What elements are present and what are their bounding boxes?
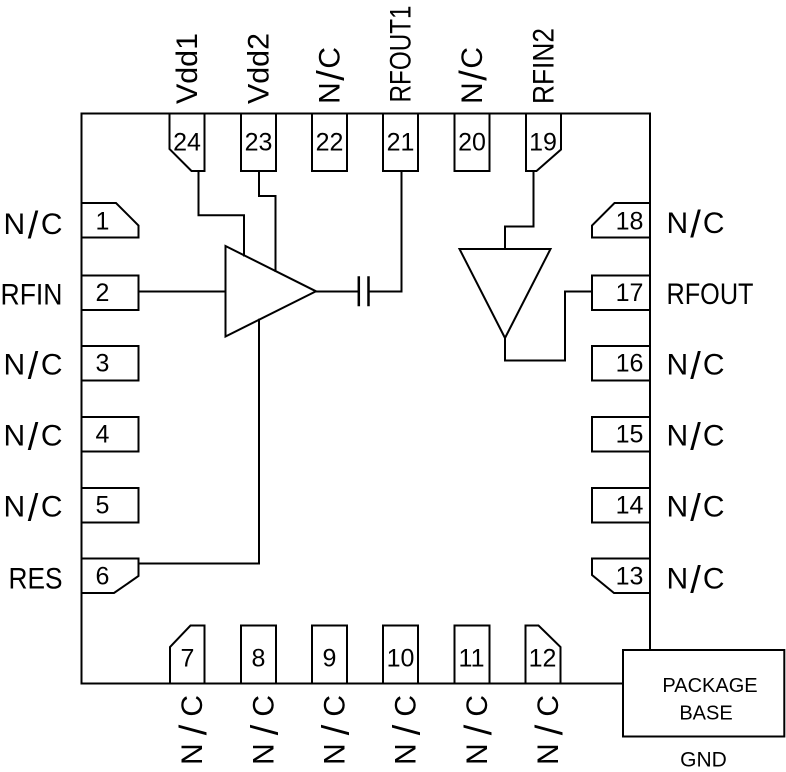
pin 6 pad	[82, 559, 139, 594]
svg-text:4: 4	[96, 421, 110, 449]
pin 22 pad	[312, 114, 347, 172]
op-amp U2	[460, 249, 551, 338]
wire pin 23 Vdd2 to U1 top	[259, 171, 276, 271]
pin 2 pad	[82, 276, 139, 311]
svg-text:N/C: N/C	[316, 695, 358, 765]
pin 18 pad	[592, 203, 650, 238]
wire U1 output to capacitor C1	[316, 291, 358, 293]
capacitor C1	[359, 278, 369, 306]
svg-text:11: 11	[459, 645, 485, 673]
pin 23 pad	[241, 114, 276, 172]
pin 12 pad	[526, 626, 561, 684]
wire pin 2 RFIN to U1 input	[139, 291, 226, 293]
pin 13 pad	[592, 559, 650, 594]
svg-text:RFOUT1: RFOUT1	[385, 6, 418, 103]
svg-text:N/C: N/C	[4, 417, 63, 459]
svg-text:N/C: N/C	[667, 417, 725, 459]
svg-text:BASE: BASE	[679, 703, 732, 725]
svg-text:RFIN2: RFIN2	[528, 28, 561, 104]
pin 4 pad	[82, 417, 139, 452]
pin 20 pad	[455, 114, 490, 172]
svg-text:RFOUT: RFOUT	[667, 278, 754, 311]
wire capacitor C1 to pin 21 RFOUT1	[370, 171, 402, 292]
svg-text:24: 24	[173, 129, 201, 157]
svg-text:6: 6	[96, 563, 110, 591]
svg-text:N/C: N/C	[4, 488, 63, 530]
svg-text:12: 12	[529, 645, 557, 673]
svg-text:8: 8	[252, 645, 266, 673]
svg-text:N/C: N/C	[4, 346, 63, 388]
op-amp U1	[226, 246, 317, 337]
svg-text:N/C: N/C	[458, 695, 500, 765]
pin 11 pad	[455, 626, 490, 684]
svg-text:N/C: N/C	[4, 205, 63, 247]
svg-text:17: 17	[616, 279, 644, 307]
wire pin 6 RES to U1 bottom	[139, 320, 260, 564]
pin 10 pad	[383, 626, 418, 684]
svg-text:21: 21	[387, 129, 415, 157]
wire pin 24 Vdd1 to U1 top	[199, 171, 245, 256]
svg-text:1: 1	[96, 208, 110, 236]
pin 21 pad	[383, 114, 418, 172]
wire U2 output to pin 17 RFOUT	[505, 292, 592, 361]
pin 24 pad	[170, 114, 205, 172]
svg-text:N/C: N/C	[173, 695, 215, 765]
svg-text:16: 16	[616, 350, 644, 378]
pin 16 pad	[592, 346, 650, 381]
svg-text:23: 23	[245, 129, 273, 157]
pin 1 pad	[82, 203, 139, 238]
svg-text:RES: RES	[9, 563, 63, 596]
svg-text:7: 7	[181, 645, 195, 673]
pin 17 pad	[592, 276, 650, 311]
pin 8 pad	[241, 626, 276, 684]
pin 9 pad	[312, 626, 347, 684]
package base paddle	[623, 650, 784, 737]
svg-text:N/C: N/C	[387, 695, 429, 765]
svg-text:N/C: N/C	[667, 488, 725, 530]
svg-text:14: 14	[616, 492, 644, 520]
svg-text:N/C: N/C	[311, 47, 353, 104]
svg-text:GND: GND	[680, 749, 727, 772]
svg-text:N/C: N/C	[453, 47, 495, 104]
svg-text:N/C: N/C	[667, 204, 725, 246]
svg-text:18: 18	[616, 208, 644, 236]
svg-text:15: 15	[616, 421, 644, 449]
svg-text:PACKAGE: PACKAGE	[662, 675, 757, 697]
svg-text:N/C: N/C	[529, 695, 571, 765]
svg-text:19: 19	[529, 129, 557, 157]
svg-text:3: 3	[96, 350, 110, 378]
pin 14 pad	[592, 488, 650, 523]
pin 3 pad	[82, 346, 139, 381]
pin 15 pad	[592, 417, 650, 452]
svg-text:Vdd2: Vdd2	[243, 33, 276, 104]
pin 19 pad	[526, 114, 561, 172]
pin 5 pad	[82, 488, 139, 523]
svg-text:9: 9	[323, 645, 337, 673]
svg-text:20: 20	[458, 129, 486, 157]
svg-text:5: 5	[96, 492, 110, 520]
IC package outline	[82, 114, 651, 684]
svg-text:13: 13	[616, 563, 644, 591]
svg-text:2: 2	[96, 279, 110, 307]
svg-text:N/C: N/C	[667, 560, 725, 602]
wire pin 19 RFIN2 to U2 input	[505, 171, 534, 249]
svg-text:22: 22	[316, 129, 344, 157]
svg-text:N/C: N/C	[667, 346, 725, 388]
svg-text:Vdd1: Vdd1	[171, 33, 204, 104]
svg-text:10: 10	[387, 645, 415, 673]
svg-text:RFIN: RFIN	[1, 279, 63, 312]
svg-text:N/C: N/C	[245, 695, 287, 765]
pin 7 pad	[170, 626, 205, 684]
